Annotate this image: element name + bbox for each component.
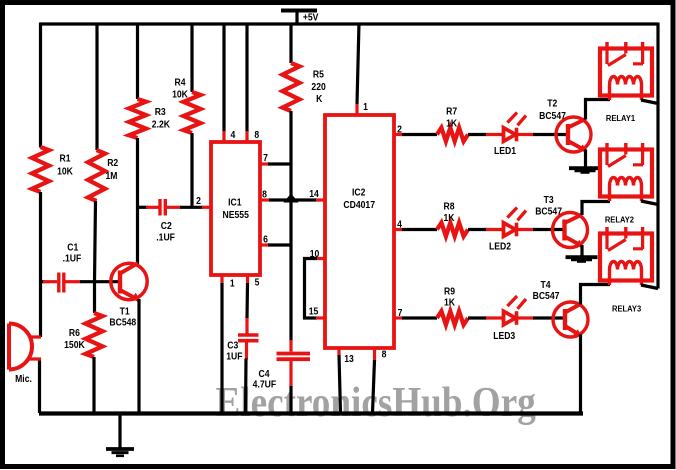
wire R4 bottom to pin2 node <box>190 133 193 207</box>
pin 2 stub IC2 right <box>394 124 403 135</box>
svg-text:1K: 1K <box>444 297 455 308</box>
svg-text:C4: C4 <box>258 369 270 380</box>
counter IC2 CD4017 <box>325 115 394 348</box>
wire R3 column to C2 <box>138 206 149 209</box>
resistor R8 1K <box>437 201 468 236</box>
wire IC1 pin4 column <box>222 23 225 133</box>
LED LED2 <box>486 208 534 252</box>
wire IC1 pin8 top column <box>245 23 248 133</box>
svg-text:15: 15 <box>309 306 319 317</box>
svg-text:R1: R1 <box>59 153 70 164</box>
wire LED3 to T4 base <box>533 316 565 319</box>
svg-text:C2: C2 <box>161 221 172 232</box>
svg-text:T2: T2 <box>547 98 557 109</box>
wire pin8 to rail <box>373 360 375 413</box>
wire IC2 pin 7 to R9 <box>402 316 437 319</box>
capacitor C4 4.7UF <box>253 340 310 390</box>
transistor T4 BC547 <box>533 280 588 337</box>
svg-text:BC547: BC547 <box>535 206 562 217</box>
svg-text:K: K <box>316 94 323 105</box>
transistor T3 BC547 <box>535 195 587 248</box>
wire IC1 pin1 to rail <box>220 283 223 413</box>
wire base node horizontal <box>41 280 46 283</box>
transistor T2 BC547 <box>539 98 591 152</box>
wire T1 emitter to rail <box>137 299 140 413</box>
pin 15 stub IC2 <box>309 306 325 318</box>
svg-text:2: 2 <box>397 124 402 135</box>
wire R1 column top <box>39 23 42 148</box>
svg-text:C3: C3 <box>227 340 238 351</box>
svg-text:IC2: IC2 <box>352 187 365 198</box>
wire pin7 to timing column <box>268 162 291 165</box>
svg-text:1K: 1K <box>446 118 457 129</box>
wire pin13 to rail <box>339 355 341 413</box>
ground under T2 <box>569 168 601 173</box>
ground main <box>106 414 134 456</box>
svg-text:150K: 150K <box>64 340 85 351</box>
pin 7 stub IC1 <box>260 153 269 164</box>
svg-text:NE555: NE555 <box>223 210 249 221</box>
svg-text:1: 1 <box>363 102 368 113</box>
svg-text:R2: R2 <box>107 157 118 168</box>
svg-text:1: 1 <box>230 278 235 289</box>
svg-text:5: 5 <box>255 277 260 288</box>
wire R3 column top <box>136 23 139 100</box>
pin 7 stub IC2 right <box>394 308 403 319</box>
wire T2 emitter to ground <box>584 150 587 167</box>
wire R7 to LED1 <box>468 133 487 136</box>
wire IC2 pin1 column <box>357 23 359 105</box>
wire IC1 output to IC2 pin14 <box>269 198 317 201</box>
svg-text:8: 8 <box>382 349 387 360</box>
wire LED2 to T3 base <box>533 228 565 231</box>
pin 1 stub IC2 <box>357 102 368 115</box>
wire T2 collector to relay <box>586 100 611 120</box>
wire R8 to LED2 <box>468 228 487 231</box>
svg-text:BC548: BC548 <box>109 317 136 328</box>
svg-text:CD4017: CD4017 <box>343 199 375 210</box>
svg-text:T3: T3 <box>544 195 554 206</box>
svg-text:C1: C1 <box>67 242 78 253</box>
svg-text:Mic.: Mic. <box>15 374 32 385</box>
wire R3 bottom to T1 collector <box>136 138 139 265</box>
svg-text:BC547: BC547 <box>533 291 560 302</box>
svg-text:LED1: LED1 <box>494 145 516 156</box>
wire mic lower terminal to bottom rail <box>38 359 41 414</box>
svg-text:R6: R6 <box>69 328 80 339</box>
svg-text:8: 8 <box>254 130 259 141</box>
wire R4 column top <box>190 23 193 93</box>
pin 14 stub IC2 <box>309 189 325 200</box>
ground under T3 <box>566 257 598 262</box>
svg-text:14: 14 <box>309 189 319 200</box>
pin 4 stub IC2 right <box>394 219 403 230</box>
wire C2 to IC1 pin2 <box>180 206 203 209</box>
svg-text:2: 2 <box>196 196 201 207</box>
svg-text:+5V: +5V <box>303 12 319 23</box>
capacitor C3 1UF <box>226 318 258 362</box>
wire R5 bottom / timing column <box>289 111 292 341</box>
svg-text:R5: R5 <box>313 69 324 80</box>
relay RELAY1 <box>600 42 652 100</box>
svg-text:7: 7 <box>398 308 403 319</box>
svg-text:4: 4 <box>230 130 236 141</box>
resistor R6 <box>64 313 102 357</box>
svg-text:LED2: LED2 <box>489 241 511 252</box>
pin 5 stub IC1 <box>248 275 260 288</box>
resistor R5 <box>283 63 326 111</box>
svg-text:RELAY2: RELAY2 <box>605 215 635 225</box>
wire pin10-pin15 bracket <box>305 259 318 319</box>
svg-text:8: 8 <box>262 189 267 200</box>
wire R1 column to mic node <box>39 192 42 337</box>
timer IC1 NE555 <box>211 142 260 275</box>
node +5V supply bar <box>281 11 319 23</box>
pin 13 stub IC2 <box>339 348 354 364</box>
svg-text:RELAY3: RELAY3 <box>612 304 642 314</box>
svg-text:RELAY1: RELAY1 <box>606 114 636 124</box>
wire R9 to LED3 <box>468 316 487 319</box>
pin 8 stub IC2 bottom <box>375 348 387 361</box>
svg-text:10K: 10K <box>172 89 188 100</box>
relay RELAY2 <box>600 143 652 201</box>
wire R5 column top <box>289 23 292 64</box>
wire T4 collector to relay <box>581 285 611 305</box>
svg-text:4.7UF: 4.7UF <box>253 379 277 390</box>
svg-text:R4: R4 <box>174 77 186 88</box>
svg-text:4: 4 <box>397 219 403 230</box>
svg-text:BC547: BC547 <box>539 111 566 122</box>
capacitor C2 .1UF <box>146 199 181 243</box>
svg-text:R7: R7 <box>446 106 457 117</box>
pin 10 stub IC2 <box>310 249 325 260</box>
wire LED1 to T2 base <box>533 133 568 136</box>
pin 8 stub IC1 right (output) <box>260 189 270 200</box>
wire R6 bottom to rail <box>92 357 95 413</box>
wire pin6 to timing column <box>268 243 291 246</box>
wire C1 to T1 base <box>80 280 121 283</box>
svg-text:R9: R9 <box>444 286 455 297</box>
svg-text:1M: 1M <box>106 170 118 181</box>
wire relay3 coil to supply rail <box>641 285 658 289</box>
svg-text:.1UF: .1UF <box>156 232 175 243</box>
junction timing column / clock wire <box>286 195 297 202</box>
wire relay1 coil to supply rail <box>641 100 658 104</box>
resistor R1 <box>32 147 73 192</box>
LED LED1 <box>486 113 534 157</box>
wire T4 emitter to bottom rail <box>579 335 582 415</box>
wire IC2 pin 4 to R8 <box>402 228 437 231</box>
wire IC2 pin 2 to R7 <box>402 133 437 136</box>
LED LED3 <box>486 296 534 341</box>
pin 1 stub IC1 <box>222 275 235 289</box>
wire C3 to rail <box>244 359 248 414</box>
svg-text:220: 220 <box>311 82 325 93</box>
pin 6 stub IC1 <box>260 234 269 245</box>
svg-text:T4: T4 <box>540 280 551 291</box>
svg-text:R8: R8 <box>443 201 454 212</box>
wire +5V tap <box>295 12 298 24</box>
capacitor C1 .1UF <box>43 242 82 293</box>
svg-text:7: 7 <box>263 153 268 164</box>
resistor R2 <box>88 150 118 201</box>
pin 2 stub IC1 <box>196 196 211 208</box>
svg-text:6: 6 <box>263 234 268 245</box>
transistor T1 BC548 <box>109 263 147 328</box>
wire T3 collector to relay <box>582 202 610 216</box>
svg-text:T1: T1 <box>120 306 130 317</box>
svg-text:R3: R3 <box>155 107 166 118</box>
resistor R7 1K <box>437 106 468 141</box>
svg-text:1K: 1K <box>443 213 454 224</box>
wire pin5 down to C3 <box>245 283 249 319</box>
microphone Mic. <box>9 324 41 385</box>
resistor R9 1K <box>437 286 468 325</box>
svg-text:IC1: IC1 <box>228 197 241 208</box>
wire relay2 coil to supply rail <box>641 201 658 205</box>
wire R2 bottom to base node <box>95 201 96 282</box>
wire base node to R6 <box>93 282 96 313</box>
wire top supply rail <box>40 22 658 25</box>
resistor R3 <box>129 99 170 138</box>
wire R2 column top <box>95 23 98 151</box>
resistor R4 <box>172 77 200 133</box>
relay RELAY3 <box>600 227 652 285</box>
wire C4 to rail <box>289 386 292 413</box>
wire T3 emitter to ground <box>580 245 583 256</box>
pin 4 stub IC1 <box>224 130 236 142</box>
svg-text:1UF: 1UF <box>226 351 243 362</box>
svg-text:13: 13 <box>344 354 354 365</box>
wire bottom ground rail <box>39 411 583 415</box>
svg-text:10K: 10K <box>57 166 73 177</box>
svg-text:LED3: LED3 <box>493 331 515 342</box>
svg-text:.1UF: .1UF <box>63 253 82 264</box>
wire right relay supply rail <box>656 23 659 289</box>
pin 8 stub IC1 top <box>247 130 259 142</box>
svg-text:2.2K: 2.2K <box>152 119 171 130</box>
